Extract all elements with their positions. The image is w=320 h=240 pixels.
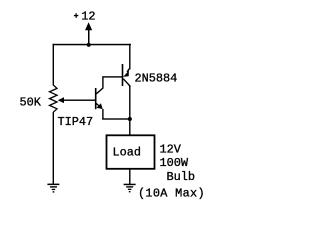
wire top rail (53, 44, 131, 46)
power arrow up (85, 22, 92, 45)
ground left (47, 184, 59, 193)
resistor R1 50K potentiometer (50, 85, 58, 112)
svg-text:12V: 12V (160, 143, 182, 157)
svg-text:100W: 100W (160, 156, 189, 170)
label +12 supply (74, 13, 78, 17)
ground right (124, 184, 136, 193)
transistor Q1 TIP47 (95, 88, 103, 109)
wiper arrow (58, 97, 64, 103)
wire rail to potentiometer top (53, 44, 54, 86)
node junction at +12 rail (87, 43, 91, 47)
svg-text:2N5884: 2N5884 (135, 71, 178, 85)
svg-text:Bulb: Bulb (167, 170, 196, 184)
node output junction (128, 117, 132, 121)
svg-text:Load: Load (113, 146, 142, 160)
wire 2N5884 collector down (129, 86, 130, 120)
wire TIP47 collector to 2N5884 base (102, 76, 123, 88)
svg-text:50K: 50K (20, 96, 42, 110)
svg-text:12: 12 (81, 10, 95, 24)
transistor Q2 2N5884 (122, 64, 131, 87)
wire rail to 2N5884 emitter (129, 44, 130, 70)
wire TIP47 emitter to output node (102, 109, 130, 120)
wire load to ground (129, 169, 130, 184)
wire wiper to TIP47 base (63, 100, 95, 101)
wire output node to load (129, 119, 130, 136)
svg-text:(10A Max): (10A Max) (138, 187, 205, 201)
load box (107, 135, 155, 169)
wire potentiometer bottom to ground (53, 112, 54, 184)
svg-text:TIP47: TIP47 (58, 115, 94, 129)
